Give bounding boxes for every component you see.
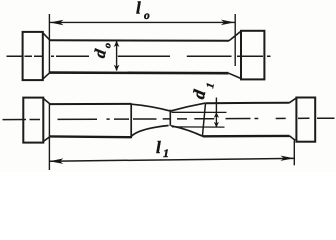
svg-text:o: o bbox=[144, 10, 150, 22]
svg-text:l: l bbox=[156, 138, 161, 157]
svg-text:o: o bbox=[102, 42, 114, 49]
svg-text:l: l bbox=[136, 0, 141, 18]
svg-text:1: 1 bbox=[163, 146, 169, 160]
svg-text:d: d bbox=[189, 88, 209, 101]
svg-text:1: 1 bbox=[205, 82, 217, 89]
